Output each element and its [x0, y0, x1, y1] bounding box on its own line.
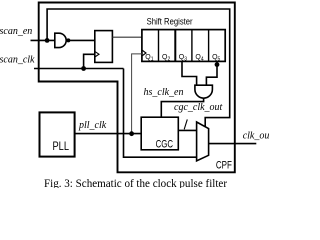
svg-text:scan_clk: scan_clk — [0, 55, 35, 66]
svg-text:scan_en: scan_en — [0, 26, 32, 37]
svg-text:clk_out: clk_out — [243, 130, 269, 141]
svg-text:CPF: CPF — [216, 159, 232, 171]
svg-text:hs_clk_en: hs_clk_en — [144, 87, 184, 98]
svg-text:CGC: CGC — [156, 139, 173, 151]
svg-text:PLL: PLL — [53, 141, 70, 153]
svg-text:cgc_clk_out: cgc_clk_out — [174, 102, 223, 113]
svg-text:Shift Register: Shift Register — [147, 17, 193, 27]
svg-text:Fig. 3: Schematic of the clock: Fig. 3: Schematic of the clock pulse fil… — [44, 178, 227, 188]
svg-text:pll_clk: pll_clk — [78, 120, 107, 131]
